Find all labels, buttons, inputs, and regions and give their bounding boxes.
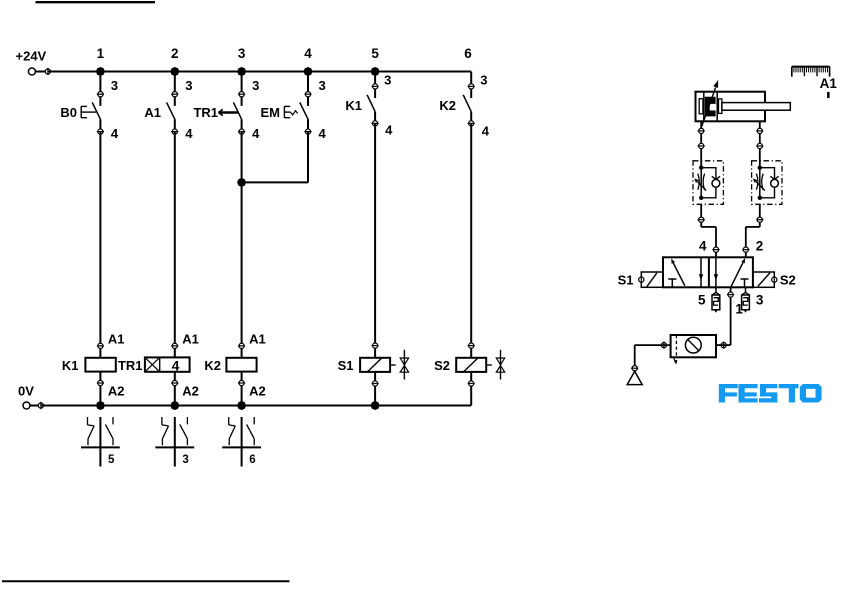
tube left flow control to port 4 bbox=[700, 204, 702, 227]
wire +24V rail bbox=[48, 71, 471, 73]
svg-text:3: 3 bbox=[185, 78, 192, 93]
tube node left bbox=[699, 143, 704, 148]
solenoid pilot S2 diagonal bbox=[758, 273, 770, 286]
flow control outlet junction bbox=[699, 196, 703, 200]
wire TR1 coil stubs bbox=[174, 348, 176, 357]
silencer at x=715.9 bbox=[715, 287, 717, 292]
wire col2 contact to coil TR1 bbox=[174, 132, 176, 346]
contact blade bbox=[233, 102, 241, 119]
pin 3 bbox=[305, 92, 310, 97]
flow control inlet junction bbox=[758, 166, 762, 170]
check valve seat bbox=[770, 176, 778, 179]
valve actuation symbol of S1 (hourglass) bbox=[403, 350, 405, 380]
solenoid pilot S2 box bbox=[753, 272, 774, 287]
wire source to service unit bbox=[635, 344, 671, 346]
svg-text:4: 4 bbox=[699, 238, 707, 253]
wire contact lower bbox=[174, 119, 176, 131]
pin 4 bbox=[305, 129, 310, 134]
wire K2 coil stubs bbox=[241, 348, 243, 358]
timer relay TR1 box bbox=[145, 357, 190, 371]
flow control main line bbox=[759, 168, 761, 198]
pin 3 bbox=[373, 84, 378, 89]
valve symbol dash of S2 bbox=[486, 364, 492, 366]
svg-text:4: 4 bbox=[172, 358, 180, 374]
cylinder port node right bbox=[757, 128, 762, 133]
check valve seat bbox=[712, 176, 720, 179]
svg-text:3: 3 bbox=[480, 72, 487, 87]
solenoid pilot S2 node bbox=[772, 277, 777, 282]
terminal 0V bbox=[23, 402, 30, 409]
svg-text:A1: A1 bbox=[820, 76, 838, 91]
wire contact lower bbox=[99, 119, 101, 131]
flow control main line bbox=[700, 168, 702, 198]
cylinder stroke arrow bbox=[702, 88, 716, 127]
junction top rail col 5 bbox=[371, 67, 380, 76]
contact blade bbox=[167, 102, 175, 119]
node +24V rail bbox=[35, 71, 48, 73]
air service unit box bbox=[671, 335, 716, 357]
junction top rail col 2 bbox=[170, 67, 179, 76]
pin node top of S1 bbox=[373, 343, 378, 348]
cylinder left cap line bbox=[703, 92, 705, 122]
wire contact upper bbox=[374, 72, 376, 99]
svg-text:4: 4 bbox=[319, 126, 327, 141]
port 4 node bbox=[713, 247, 718, 252]
wire EM branch horizontal to col3 bbox=[242, 181, 308, 183]
pin node top of S2 bbox=[469, 343, 474, 348]
contact mirror NO miniature bbox=[186, 417, 188, 424]
svg-text:4: 4 bbox=[304, 46, 312, 61]
solenoid pilot S1 diagonal bbox=[647, 273, 657, 287]
air service unit drain arrow bbox=[674, 357, 676, 362]
cylinder rod bearing bbox=[719, 99, 722, 114]
svg-text:3: 3 bbox=[384, 72, 391, 87]
contact mirror at col x=241.6 bbox=[241, 417, 243, 467]
valve right chamber straight flow line 4-5 bbox=[715, 257, 717, 287]
wire contact upper bbox=[174, 72, 176, 106]
flow control dashed enclosure bbox=[752, 161, 782, 205]
wire S2 coil stubs bbox=[470, 348, 472, 358]
air service unit left node bbox=[661, 343, 666, 348]
wire contact upper bbox=[307, 72, 309, 106]
svg-text:1: 1 bbox=[735, 302, 743, 317]
svg-text:TR1: TR1 bbox=[118, 358, 143, 373]
wire contact lower bbox=[470, 112, 472, 124]
pin A1 node bbox=[239, 343, 244, 348]
svg-text:6: 6 bbox=[249, 454, 255, 466]
actuator EM (manual detent symbol) bbox=[283, 106, 285, 118]
contact mirror crossbar bbox=[81, 446, 120, 448]
solenoid S2 diagonal bbox=[464, 359, 477, 372]
tube right flow control to port 2 bbox=[759, 204, 761, 227]
pin 3 bbox=[172, 92, 177, 97]
svg-text:B0: B0 bbox=[60, 105, 77, 120]
svg-text:A1: A1 bbox=[144, 105, 161, 120]
junction top rail col 1 bbox=[96, 67, 105, 76]
junction bottom rail 1 bbox=[170, 401, 179, 410]
pin A1 node bbox=[98, 343, 103, 348]
svg-text:A2: A2 bbox=[108, 383, 125, 398]
svg-text:3: 3 bbox=[756, 293, 764, 308]
wire contact upper bbox=[470, 72, 472, 99]
timer actuation arrow of TR1 bbox=[219, 111, 238, 113]
solenoid pilot S1 box bbox=[641, 272, 663, 287]
pin 4 bbox=[239, 129, 244, 134]
wire port 1 down bbox=[730, 287, 732, 345]
flow control bypass line bbox=[760, 168, 775, 198]
pin 4 bbox=[373, 121, 378, 126]
svg-text:EM: EM bbox=[261, 105, 281, 120]
valve actuation symbol of S2 (hourglass) bbox=[500, 350, 502, 380]
solenoid coil S1 box bbox=[360, 358, 390, 372]
contact blade bbox=[92, 102, 100, 119]
contact mirror NO miniature bbox=[112, 417, 114, 424]
wire col1 contact to coil K1 bbox=[99, 132, 101, 346]
air service unit right node bbox=[721, 343, 726, 348]
wire S1 coil stubs bbox=[374, 348, 376, 358]
pin 4 bbox=[469, 121, 474, 126]
svg-text:4: 4 bbox=[385, 123, 393, 138]
svg-text:3: 3 bbox=[182, 454, 188, 466]
pin node bottom of S1 bbox=[373, 381, 378, 386]
wire contact upper bbox=[241, 72, 243, 106]
svg-text:6: 6 bbox=[464, 46, 472, 61]
valve left chamber flow arrow bbox=[673, 263, 685, 286]
pin A2 node bbox=[239, 380, 244, 385]
junction bottom rail 0 bbox=[96, 401, 105, 410]
node 0V rail bbox=[30, 405, 41, 407]
cylinder port node left bbox=[699, 128, 704, 133]
solenoid pilot S1 node bbox=[639, 277, 644, 282]
actuator B0 (plunger E symbol) bbox=[80, 106, 82, 118]
valve right chamber flow arrow 1-2 bbox=[731, 263, 743, 288]
contact mirror NC miniature bbox=[87, 417, 89, 425]
pin A2 node bbox=[172, 380, 177, 385]
throttle arcs bbox=[698, 174, 700, 190]
page header underline bbox=[36, 1, 156, 3]
pin A2 node bbox=[98, 380, 103, 385]
wire contact lower bbox=[241, 119, 243, 131]
svg-text:3: 3 bbox=[238, 46, 246, 61]
valve right chamber blocked port T bbox=[741, 278, 749, 280]
svg-text:5: 5 bbox=[371, 46, 379, 61]
svg-text:2: 2 bbox=[756, 238, 764, 253]
svg-text:+24V: +24V bbox=[16, 49, 47, 64]
wire contact upper bbox=[99, 72, 101, 106]
air service unit gauge diagonal bbox=[688, 339, 699, 350]
valve left chamber blocked port T bbox=[668, 278, 676, 280]
position mark under A1 bbox=[827, 92, 830, 98]
svg-text:K2: K2 bbox=[204, 358, 221, 373]
junction col3 EM branch bbox=[237, 178, 246, 187]
svg-text:2: 2 bbox=[171, 46, 179, 61]
svg-text:4: 4 bbox=[252, 126, 260, 141]
throttle adjustment arrow bbox=[756, 182, 765, 191]
throttle arcs bbox=[756, 174, 758, 190]
check valve ball bbox=[771, 179, 779, 187]
svg-text:A2: A2 bbox=[249, 383, 266, 398]
pin 3 bbox=[469, 84, 474, 89]
wire col6 contact to coil S2 bbox=[470, 123, 472, 345]
flow control dashed enclosure bbox=[693, 161, 723, 205]
relay coil K2 box bbox=[226, 358, 256, 372]
svg-text:4: 4 bbox=[111, 126, 119, 141]
pin 3 bbox=[98, 92, 103, 97]
junction bottom rail 2 bbox=[237, 401, 246, 410]
svg-text:K1: K1 bbox=[345, 98, 362, 113]
wire contact lower bbox=[374, 112, 376, 124]
port 1 node bbox=[728, 292, 733, 297]
svg-text:K1: K1 bbox=[62, 358, 79, 373]
contact blade bbox=[463, 95, 471, 112]
tube right cylinder to flow control bbox=[759, 133, 761, 168]
valve chamber divider bbox=[708, 257, 710, 287]
cylinder piston rod bbox=[722, 103, 790, 111]
page footer rule bbox=[2, 580, 290, 582]
contact mirror crossbar bbox=[222, 446, 261, 448]
contact blade bbox=[300, 102, 308, 119]
svg-text:TR1: TR1 bbox=[193, 105, 218, 120]
tube left cylinder to flow control bbox=[700, 133, 702, 168]
junction top rail col 4 bbox=[304, 67, 313, 76]
pin A1 node bbox=[172, 343, 177, 348]
cylinder piston (magnet) bbox=[705, 97, 716, 117]
relay coil K1 box bbox=[85, 358, 115, 372]
contact mirror NO miniature bbox=[253, 417, 255, 424]
svg-text:5: 5 bbox=[698, 293, 706, 308]
air service unit gauge bbox=[685, 337, 701, 353]
compressed air source node bbox=[632, 366, 637, 371]
svg-text:4: 4 bbox=[185, 126, 193, 141]
solenoid coil S2 box bbox=[456, 358, 486, 372]
svg-text:3: 3 bbox=[319, 78, 326, 93]
FESTO logo bbox=[719, 384, 822, 403]
flow control inlet junction bbox=[699, 166, 703, 170]
compressed air source triangle bbox=[627, 371, 642, 384]
cylinder A1 body bbox=[696, 92, 766, 122]
junction bottom rail 3 bbox=[371, 401, 380, 410]
port 2 node bbox=[743, 247, 748, 252]
terminal +24V bbox=[28, 68, 35, 75]
pin node bottom of S2 bbox=[469, 381, 474, 386]
wire 0V rail bbox=[41, 405, 471, 407]
valve 5/2 body bbox=[663, 257, 753, 287]
svg-text:S1: S1 bbox=[618, 272, 634, 287]
wire K1 coil stubs bbox=[99, 348, 101, 358]
wire service unit to port 1 bbox=[716, 344, 731, 346]
contact mirror at col x=174.8 bbox=[174, 417, 176, 467]
wire contact lower bbox=[307, 119, 309, 131]
valve symbol dash of S1 bbox=[390, 364, 396, 366]
svg-text:0V: 0V bbox=[18, 383, 34, 398]
svg-text:4: 4 bbox=[482, 124, 490, 139]
svg-text:K2: K2 bbox=[439, 98, 456, 113]
svg-text:A2: A2 bbox=[182, 383, 199, 398]
tube node right bbox=[757, 143, 762, 148]
valve left chamber straight flow line bbox=[700, 257, 702, 287]
svg-text:3: 3 bbox=[252, 78, 259, 93]
cylinder piston right line bbox=[716, 92, 718, 122]
air service unit filter dashed line bbox=[675, 335, 677, 357]
svg-text:A1: A1 bbox=[182, 331, 199, 346]
wire col5 contact to coil S1 bbox=[374, 123, 376, 345]
check valve ball bbox=[712, 179, 720, 187]
pin 4 bbox=[172, 129, 177, 134]
cylinder port stub left bbox=[700, 121, 702, 133]
wire col3 contact to coil K2 bbox=[241, 132, 243, 346]
svg-text:5: 5 bbox=[108, 454, 115, 466]
silencer at x=745.5 bbox=[745, 287, 747, 292]
pin 3 bbox=[239, 92, 244, 97]
flow control bypass line bbox=[701, 168, 716, 198]
svg-text:3: 3 bbox=[111, 78, 118, 93]
junction top rail col 3 bbox=[237, 67, 246, 76]
pin 4 bbox=[98, 129, 103, 134]
svg-text:S2: S2 bbox=[780, 273, 796, 288]
contact mirror NC miniature bbox=[161, 417, 163, 425]
svg-text:S2: S2 bbox=[434, 358, 450, 373]
svg-text:A1: A1 bbox=[108, 331, 125, 346]
contact mirror NC miniature bbox=[228, 417, 230, 425]
svg-text:S1: S1 bbox=[338, 358, 354, 373]
contact blade bbox=[367, 95, 375, 112]
cylinder port stub right bbox=[759, 121, 761, 133]
flow control outlet junction bbox=[758, 196, 762, 200]
wire col4 EM branch down bbox=[307, 132, 309, 183]
contact mirror at col x=100.4 bbox=[99, 417, 101, 467]
svg-text:1: 1 bbox=[97, 46, 105, 61]
solenoid S1 diagonal bbox=[368, 359, 381, 372]
svg-text:A1: A1 bbox=[249, 331, 266, 346]
contact mirror crossbar bbox=[155, 446, 194, 448]
throttle adjustment arrow bbox=[698, 182, 707, 191]
cylinder cushion rect bbox=[699, 99, 703, 114]
measuring scale ruler bbox=[792, 66, 830, 68]
